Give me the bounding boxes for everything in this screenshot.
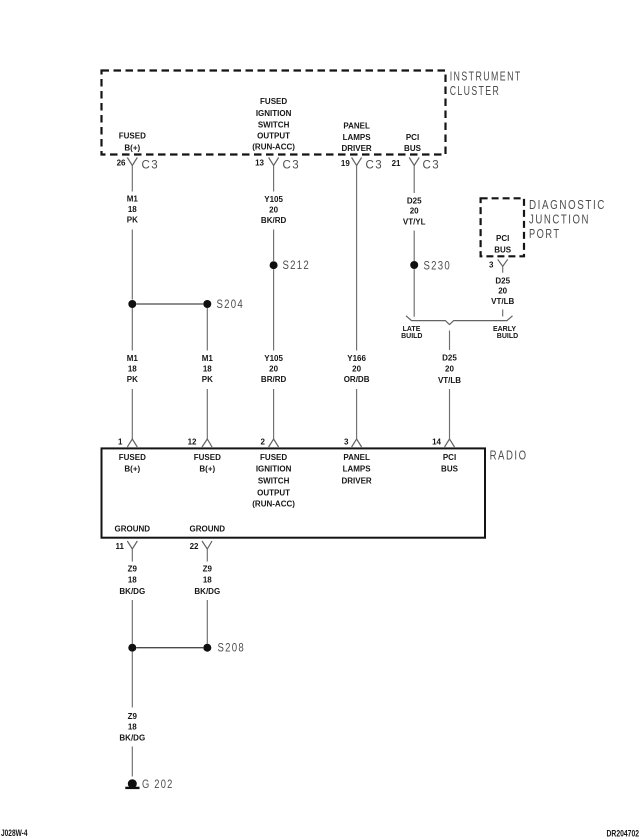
- footer sheet code J028W-4: [1, 828, 28, 838]
- svg-text:PCI: PCI: [406, 133, 419, 142]
- radio box: [102, 448, 486, 537]
- svg-text:GROUND: GROUND: [115, 525, 151, 534]
- instrument cluster dashed box: [102, 71, 446, 155]
- svg-text:FUSED: FUSED: [260, 97, 287, 106]
- svg-text:M1: M1: [202, 354, 214, 363]
- splice S230 dot: [410, 261, 418, 269]
- svg-text:18: 18: [203, 365, 212, 374]
- wire S204 left down: [131, 308, 133, 351]
- wire pin11 to label Z9: [131, 549, 133, 562]
- wire stub early build: [502, 310, 504, 317]
- radio pin 14 fork: [445, 439, 455, 447]
- svg-text:C3: C3: [142, 160, 160, 172]
- radio pin 12 fork: [202, 439, 212, 447]
- wire merge stem: [449, 331, 451, 351]
- svg-text:PCI: PCI: [443, 453, 456, 462]
- wire label Y105 20 BR/RD (col3 lower): [261, 354, 287, 384]
- wire to radio pin 1: [131, 389, 133, 439]
- svg-text:BK/DG: BK/DG: [194, 587, 220, 596]
- svg-text:18: 18: [128, 365, 137, 374]
- svg-text:FUSED: FUSED: [119, 453, 146, 462]
- svg-text:BUS: BUS: [441, 465, 459, 474]
- pin 13 number: [255, 159, 264, 168]
- cluster pin label FUSED B(+): [119, 132, 146, 153]
- splice S208 right dot: [203, 644, 211, 652]
- wire to splice S208 left: [131, 600, 133, 644]
- connector C3 label (pin 26): [142, 160, 160, 172]
- radio pin 11 fork: [127, 541, 137, 549]
- wire pin22 to label Z9: [206, 549, 208, 562]
- svg-text:SWITCH: SWITCH: [258, 120, 290, 129]
- svg-text:DRIVER: DRIVER: [341, 144, 371, 153]
- wire label Z9 18 BK/DG (col2): [194, 565, 220, 596]
- svg-text:B(+): B(+): [124, 143, 140, 152]
- wire label to splice S230: [413, 231, 415, 262]
- wire label Z9 18 BK/DG (to ground): [119, 712, 145, 743]
- svg-text:GROUND: GROUND: [190, 525, 226, 534]
- svg-text:3: 3: [489, 260, 494, 269]
- svg-text:FUSED: FUSED: [119, 132, 146, 141]
- svg-text:13: 13: [255, 159, 264, 168]
- svg-text:EARLY: EARLY: [493, 326, 516, 333]
- DJP connector pin 3 fork: [498, 259, 508, 266]
- connector C3 pin 26 fork: [127, 158, 137, 166]
- svg-text:20: 20: [352, 365, 361, 374]
- wire label D25 20 VT/YL: [403, 197, 426, 227]
- wire to splice S208 right: [206, 600, 208, 644]
- svg-text:S230: S230: [424, 260, 452, 272]
- radio pin 3 number: [344, 438, 349, 447]
- wire label Y105 20 BK/RD: [261, 195, 287, 225]
- ground G202 label: [142, 779, 174, 791]
- ground G202 dot: [128, 779, 137, 788]
- svg-text:D25: D25: [442, 354, 457, 363]
- svg-text:3: 3: [344, 438, 349, 447]
- svg-text:PANEL: PANEL: [343, 122, 370, 131]
- wire pin19 long down: [356, 166, 358, 351]
- svg-text:12: 12: [188, 438, 197, 447]
- svg-text:Y105: Y105: [264, 354, 283, 363]
- svg-text:BUS: BUS: [404, 144, 422, 153]
- svg-text:LATE: LATE: [403, 326, 421, 333]
- svg-text:BK/RD: BK/RD: [261, 216, 287, 225]
- svg-text:(RUN-ACC): (RUN-ACC): [252, 142, 295, 151]
- svg-text:2: 2: [261, 438, 266, 447]
- splice S212 dot: [270, 261, 278, 269]
- svg-text:BK/DG: BK/DG: [119, 587, 145, 596]
- svg-text:RADIO: RADIO: [490, 449, 528, 463]
- radio pin 22 fork: [202, 541, 212, 549]
- wire label M1 18 PK (lower col1): [127, 354, 139, 384]
- radio label: [490, 449, 528, 463]
- svg-text:D25: D25: [495, 277, 510, 286]
- svg-text:20: 20: [269, 206, 278, 215]
- svg-text:Z9: Z9: [203, 565, 213, 574]
- radio pin label FUSED B(+) (pin1): [119, 453, 146, 474]
- late build label: [401, 326, 422, 340]
- early build label: [493, 326, 518, 340]
- connector C3 pin 13 fork: [269, 158, 279, 166]
- svg-text:DRIVER: DRIVER: [341, 477, 371, 486]
- svg-text:BUILD: BUILD: [401, 333, 422, 340]
- splice S204 label: [217, 299, 245, 311]
- diagnostic junction port label: [529, 198, 606, 241]
- svg-text:26: 26: [117, 159, 126, 168]
- svg-text:18: 18: [203, 576, 212, 585]
- svg-text:DR204702: DR204702: [607, 829, 640, 839]
- svg-text:S212: S212: [283, 260, 311, 272]
- cluster pin label FUSED IGNITION SWITCH OUTPUT (RUN-ACC): [252, 97, 295, 151]
- wire S204 right down: [206, 308, 208, 351]
- svg-text:20: 20: [269, 365, 278, 374]
- radio pin 11 number: [116, 542, 125, 551]
- svg-text:PK: PK: [127, 216, 138, 225]
- svg-text:CLUSTER: CLUSTER: [450, 84, 501, 98]
- pin 26 number: [117, 159, 126, 168]
- svg-text:Y166: Y166: [347, 354, 366, 363]
- instrument cluster label: [450, 70, 522, 99]
- svg-text:Y105: Y105: [264, 195, 283, 204]
- splice S208 link wire: [136, 647, 203, 649]
- svg-text:19: 19: [341, 159, 350, 168]
- svg-text:PORT: PORT: [529, 227, 561, 241]
- wire to radio pin 14: [449, 389, 451, 439]
- svg-text:14: 14: [432, 438, 441, 447]
- pin 21 number: [392, 159, 401, 168]
- svg-text:11: 11: [116, 542, 125, 551]
- svg-text:21: 21: [392, 159, 401, 168]
- radio pin 1 fork: [127, 439, 137, 447]
- svg-text:PK: PK: [202, 375, 213, 384]
- cluster pin label PCI BUS: [404, 133, 422, 153]
- wire to radio pin 2: [273, 389, 275, 439]
- wire pin13 to label Y105: [273, 166, 275, 192]
- svg-text:Z9: Z9: [128, 565, 138, 574]
- svg-text:DIAGNOSTIC: DIAGNOSTIC: [529, 198, 606, 212]
- splice S230 label: [424, 260, 452, 272]
- wire label M1 18 PK (col2): [202, 354, 214, 384]
- svg-text:LAMPS: LAMPS: [343, 465, 372, 474]
- wire S212 down: [273, 269, 275, 350]
- svg-text:M1: M1: [127, 195, 139, 204]
- wire label D25 20 VT/LB (early build): [491, 277, 514, 307]
- svg-text:PCI: PCI: [496, 234, 509, 243]
- wire pin21 to label D25: [413, 166, 415, 194]
- svg-text:INSTRUMENT: INSTRUMENT: [450, 70, 522, 84]
- DJP pin label PCI BUS: [494, 234, 512, 254]
- svg-text:BUILD: BUILD: [497, 333, 518, 340]
- wire pin26 to label M1: [131, 166, 133, 192]
- svg-text:B(+): B(+): [124, 465, 140, 474]
- svg-text:BUS: BUS: [494, 245, 512, 254]
- wire label Z9 18 BK/DG (col1): [119, 565, 145, 596]
- diagnostic junction port dashed box: [481, 198, 524, 256]
- svg-text:PANEL: PANEL: [343, 453, 370, 462]
- radio pin 12 number: [188, 438, 197, 447]
- svg-text:1: 1: [118, 438, 123, 447]
- radio pin label GROUND (pin11): [115, 525, 151, 534]
- svg-text:C3: C3: [366, 160, 384, 172]
- radio pin 2 number: [261, 438, 266, 447]
- splice S212 label: [283, 260, 311, 272]
- svg-text:IGNITION: IGNITION: [256, 109, 292, 118]
- connector C3 label (pin 21): [423, 160, 441, 172]
- radio pin 3 fork: [352, 439, 362, 447]
- wire S208 down to label: [131, 652, 133, 708]
- DJP pin 3 number: [489, 260, 494, 269]
- wire S230 to merge brace: [413, 269, 415, 317]
- connector C3 label (pin 19): [366, 160, 384, 172]
- splice S204 left dot: [128, 300, 136, 308]
- radio pin 22 number: [190, 542, 199, 551]
- svg-text:J028W-4: J028W-4: [1, 828, 28, 838]
- pin 19 number: [341, 159, 350, 168]
- svg-text:FUSED: FUSED: [194, 453, 221, 462]
- svg-text:20: 20: [445, 365, 454, 374]
- svg-text:M1: M1: [127, 354, 139, 363]
- splice S208 label: [218, 643, 246, 655]
- cluster pin label PANEL LAMPS DRIVER: [341, 122, 371, 154]
- radio pin 14 number: [432, 438, 441, 447]
- wire label Y166 20 OR/DB: [344, 354, 370, 384]
- wire label M1 18 PK (upper col1): [127, 195, 139, 225]
- radio pin 1 number: [118, 438, 123, 447]
- connector C3 pin 21 fork: [409, 158, 419, 166]
- svg-text:(RUN-ACC): (RUN-ACC): [252, 500, 295, 509]
- svg-text:18: 18: [128, 576, 137, 585]
- wire to ground G202: [131, 747, 133, 777]
- svg-text:C3: C3: [423, 160, 441, 172]
- svg-text:OUTPUT: OUTPUT: [257, 132, 290, 141]
- svg-text:OUTPUT: OUTPUT: [257, 489, 290, 498]
- svg-text:JUNCTION: JUNCTION: [529, 213, 590, 227]
- svg-text:G 202: G 202: [142, 779, 174, 791]
- svg-text:VT/LB: VT/LB: [438, 376, 461, 385]
- svg-text:BR/RD: BR/RD: [261, 375, 287, 384]
- svg-text:18: 18: [128, 205, 137, 214]
- svg-text:D25: D25: [407, 197, 422, 206]
- svg-text:PK: PK: [127, 375, 138, 384]
- footer drawing number DR204702: [607, 829, 640, 839]
- radio pin label PCI BUS: [441, 453, 459, 474]
- svg-text:S204: S204: [217, 299, 245, 311]
- svg-text:SWITCH: SWITCH: [258, 477, 290, 486]
- svg-text:C3: C3: [283, 160, 301, 172]
- radio pin label FUSED IGNITION SWITCH OUTPUT (RUN-ACC): [252, 453, 295, 509]
- radio pin label FUSED B(+) (pin12): [194, 453, 221, 474]
- merge brace (late/early build join): [406, 316, 513, 325]
- wire to radio pin 12: [206, 389, 208, 439]
- svg-text:IGNITION: IGNITION: [256, 465, 292, 474]
- radio pin 2 fork: [269, 439, 279, 447]
- svg-text:Z9: Z9: [128, 712, 138, 721]
- svg-text:20: 20: [410, 207, 419, 216]
- connector C3 pin 19 fork: [352, 158, 362, 166]
- svg-text:22: 22: [190, 542, 199, 551]
- svg-text:S208: S208: [218, 643, 246, 655]
- svg-text:VT/LB: VT/LB: [491, 297, 514, 306]
- svg-text:VT/YL: VT/YL: [403, 218, 426, 227]
- svg-text:OR/DB: OR/DB: [344, 375, 370, 384]
- svg-text:B(+): B(+): [199, 465, 215, 474]
- ground G202 bar: [125, 787, 139, 789]
- radio pin label GROUND (pin22): [190, 525, 226, 534]
- wire label to splice S212: [273, 230, 275, 262]
- connector C3 label (pin 13): [283, 160, 301, 172]
- wire to radio pin 3: [356, 389, 358, 439]
- splice S208 left dot: [128, 644, 136, 652]
- radio pin label PANEL LAMPS DRIVER: [341, 453, 371, 486]
- svg-text:BK/DG: BK/DG: [119, 734, 145, 743]
- svg-text:20: 20: [498, 287, 507, 296]
- svg-text:18: 18: [128, 723, 137, 732]
- splice S204 right dot: [203, 300, 211, 308]
- splice S204 link wire: [136, 303, 203, 305]
- svg-text:LAMPS: LAMPS: [343, 133, 372, 142]
- svg-text:FUSED: FUSED: [260, 453, 287, 462]
- wire label D25 20 VT/LB (to radio): [438, 354, 461, 386]
- wire label to splice S204: [131, 230, 133, 300]
- wire DJP pin3 stem: [502, 266, 504, 272]
